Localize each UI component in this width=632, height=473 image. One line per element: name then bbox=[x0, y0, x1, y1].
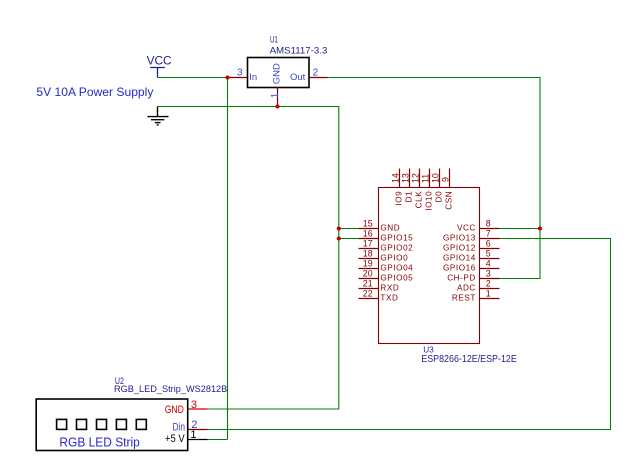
svg-text:VCC: VCC bbox=[147, 53, 172, 67]
svg-text:IO10: IO10 bbox=[425, 191, 434, 211]
svg-text:7: 7 bbox=[486, 228, 491, 238]
svg-text:IO9: IO9 bbox=[395, 191, 404, 206]
svg-text:13: 13 bbox=[400, 173, 410, 183]
svg-text:RGB LED Strip: RGB LED Strip bbox=[59, 436, 139, 450]
svg-text:AMS1117-3.3: AMS1117-3.3 bbox=[270, 46, 328, 57]
svg-text:9: 9 bbox=[440, 177, 450, 182]
svg-text:GPIO14: GPIO14 bbox=[443, 254, 476, 263]
svg-text:GPIO05: GPIO05 bbox=[380, 274, 413, 283]
svg-text:+5 V: +5 V bbox=[165, 433, 185, 445]
svg-text:GPIO13: GPIO13 bbox=[443, 234, 476, 243]
svg-text:GPIO02: GPIO02 bbox=[380, 244, 413, 253]
svg-text:1: 1 bbox=[486, 288, 491, 298]
svg-text:2: 2 bbox=[486, 278, 491, 288]
svg-text:19: 19 bbox=[363, 258, 373, 268]
svg-text:11: 11 bbox=[420, 174, 430, 183]
svg-text:GND: GND bbox=[272, 63, 283, 84]
svg-text:VCC: VCC bbox=[457, 224, 476, 233]
svg-text:Out: Out bbox=[290, 72, 306, 83]
svg-text:CH-PD: CH-PD bbox=[447, 274, 476, 283]
svg-text:GND: GND bbox=[165, 404, 184, 416]
svg-text:GPIO16: GPIO16 bbox=[443, 264, 476, 273]
svg-text:GPIO0: GPIO0 bbox=[380, 254, 408, 263]
svg-text:GPIO12: GPIO12 bbox=[443, 244, 476, 253]
svg-text:16: 16 bbox=[363, 228, 373, 238]
svg-text:21: 21 bbox=[363, 278, 373, 288]
svg-text:1: 1 bbox=[270, 92, 281, 98]
svg-text:6: 6 bbox=[486, 238, 491, 248]
svg-text:4: 4 bbox=[486, 258, 491, 268]
svg-text:17: 17 bbox=[363, 238, 373, 248]
svg-text:8: 8 bbox=[486, 218, 491, 228]
svg-text:18: 18 bbox=[363, 248, 373, 258]
svg-text:2: 2 bbox=[313, 68, 319, 79]
svg-text:D0: D0 bbox=[435, 191, 444, 203]
svg-text:12: 12 bbox=[410, 173, 420, 183]
svg-text:U3: U3 bbox=[423, 344, 434, 354]
svg-text:10: 10 bbox=[430, 173, 440, 183]
svg-text:CLK: CLK bbox=[415, 191, 424, 209]
svg-text:1: 1 bbox=[190, 429, 196, 441]
svg-text:22: 22 bbox=[363, 288, 373, 298]
svg-text:ADC: ADC bbox=[457, 284, 476, 293]
svg-text:5V 10A Power Supply: 5V 10A Power Supply bbox=[36, 86, 153, 99]
svg-text:20: 20 bbox=[363, 268, 373, 278]
svg-text:3: 3 bbox=[191, 399, 197, 411]
svg-text:U1: U1 bbox=[270, 35, 278, 45]
svg-text:GND: GND bbox=[380, 224, 400, 233]
svg-text:ESP8266-12E/ESP-12E: ESP8266-12E/ESP-12E bbox=[421, 354, 517, 365]
svg-text:3: 3 bbox=[237, 68, 243, 79]
svg-text:REST: REST bbox=[452, 294, 476, 303]
svg-text:3: 3 bbox=[486, 268, 491, 278]
svg-text:CSN: CSN bbox=[445, 191, 454, 210]
svg-text:14: 14 bbox=[390, 173, 400, 183]
svg-text:TXD: TXD bbox=[380, 294, 398, 303]
svg-text:Din: Din bbox=[173, 421, 186, 433]
svg-text:5: 5 bbox=[486, 248, 491, 258]
svg-text:GPIO04: GPIO04 bbox=[380, 264, 413, 273]
svg-text:RXD: RXD bbox=[380, 284, 399, 293]
svg-text:RGB_LED_Strip_WS2812B: RGB_LED_Strip_WS2812B bbox=[114, 384, 227, 394]
svg-text:In: In bbox=[249, 72, 257, 83]
svg-text:D1: D1 bbox=[405, 191, 414, 203]
svg-text:15: 15 bbox=[363, 218, 373, 228]
svg-text:GPIO15: GPIO15 bbox=[380, 234, 413, 243]
